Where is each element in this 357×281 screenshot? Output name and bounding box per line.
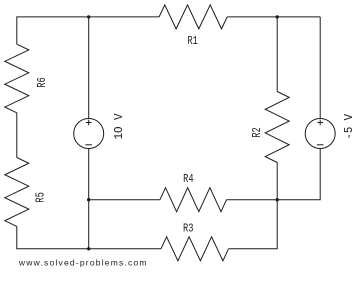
svg-text:R2: R2 [250,127,264,138]
wire middle rail below source [88,149,90,249]
svg-text:-5 V: -5 V [342,113,356,139]
svg-text:R3: R3 [183,222,194,236]
node junction top-right [276,15,279,18]
source V2 -5 V [305,119,335,149]
V1 plus [86,120,92,126]
wire middle rail above source [88,17,90,119]
wire R2 branch bottom [276,163,278,200]
wire top-left to R1 [17,16,159,18]
node junction top-left [87,15,90,18]
V2 minus [317,144,324,146]
wire R2 branch top [276,17,278,92]
resistor R4 [160,188,227,212]
wire right rail above source [319,17,321,119]
svg-text:www.solved-problems.com: www.solved-problems.com [18,258,147,268]
V2 plus [317,120,323,126]
resistor R2 [265,92,289,163]
wire R4 row right [227,199,278,201]
svg-text:R5: R5 [34,192,48,203]
resistor R1 [159,5,227,29]
wire R3 to right riser [229,200,278,249]
node junction bottom [87,247,90,250]
wire R1 to top-right corner [227,16,320,18]
resistor R6 [5,44,29,113]
V1 minus [85,144,92,146]
wire left rail middle [16,113,18,158]
wire R4 row left [89,199,160,201]
resistor R5 [5,158,29,227]
wire left rail bottom and bottom wire [17,226,161,248]
node junction mid-right [276,198,279,201]
svg-text:R6: R6 [35,77,49,88]
node junction mid-left [87,198,90,201]
svg-text:1O V: 1O V [112,113,126,140]
svg-text:R4: R4 [183,172,194,186]
svg-text:R1: R1 [187,34,198,48]
source V1 10 V [74,119,104,149]
wire right rail below source [277,149,320,200]
wire left rail top [16,16,18,44]
resistor R3 [161,237,229,261]
